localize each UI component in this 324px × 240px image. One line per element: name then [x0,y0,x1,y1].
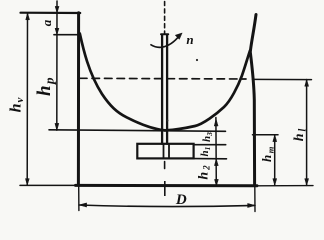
vortex curve right branch [165,51,250,131]
impeller hub left line [163,144,165,158]
center axis dashed line top [164,2,166,34]
liquid level extension right (h_l top reference) [253,78,312,80]
rotation arrowhead [175,33,182,39]
agitator shaft right bar [166,35,168,144]
arrowhead h_m bottom [273,179,277,186]
tank right wall [250,15,256,186]
vortex curve left branch [80,34,165,131]
arrowhead a bottom (down) [55,28,59,34]
arrowhead D right [248,203,255,207]
arrowhead h_v top (up) [26,13,30,20]
paddle top reference extension [194,144,226,146]
agitator shaft left bar [161,35,163,144]
shaft top cap [161,33,168,35]
arrowhead h_p bottom (down) [55,123,59,130]
tank bottom thin extension right [257,185,313,187]
tank left wall [77,13,80,186]
arrowhead h_l bottom [305,179,309,186]
small dimension chain vertical (h3,h1,h2) [215,118,217,187]
dimension line h_l [306,80,308,186]
center axis dash at bottom crossing [164,181,166,196]
chain arrowhead down at tank bottom [215,179,219,186]
dimension line a + h_p (shared vertical) [56,1,58,130]
dimension line D [79,205,255,207]
arrowhead h_m top [273,135,277,142]
svg-text:a: a [39,19,54,26]
arrowhead h_l top [305,80,309,87]
scan speck dot 1 [196,59,198,61]
svg-text:D: D [175,192,187,208]
arrowhead D left [79,203,86,207]
rotation arrow arc [151,36,180,48]
scan speck dot 2 [167,120,169,122]
chain arrowhead up below paddle bottom line [214,159,218,166]
liquid level dashed line [80,77,247,80]
impeller paddle outline [137,144,193,159]
right wall extension below tank [254,186,256,212]
chain arrowhead up near top [214,119,218,126]
dimension line h_m [274,135,276,186]
svg-text:n: n [186,32,193,47]
paddle bottom reference extension [194,158,227,160]
vortex bottom reference line [49,130,226,132]
left wall extension below tank [78,186,80,211]
h_m top reference line [253,134,279,136]
impeller hub right line [168,144,170,158]
dimension line h_v [26,13,28,186]
h_v bottom extension line [20,184,76,186]
center axis dash below paddle [164,162,166,169]
tank bottom [76,184,258,187]
arrowhead h_v bottom (down) [25,179,29,186]
arrowhead a top (down onto rim) [55,6,59,12]
tank rim top-left line [21,12,81,15]
liquid at wall reference line (bottom of a) [54,34,80,36]
